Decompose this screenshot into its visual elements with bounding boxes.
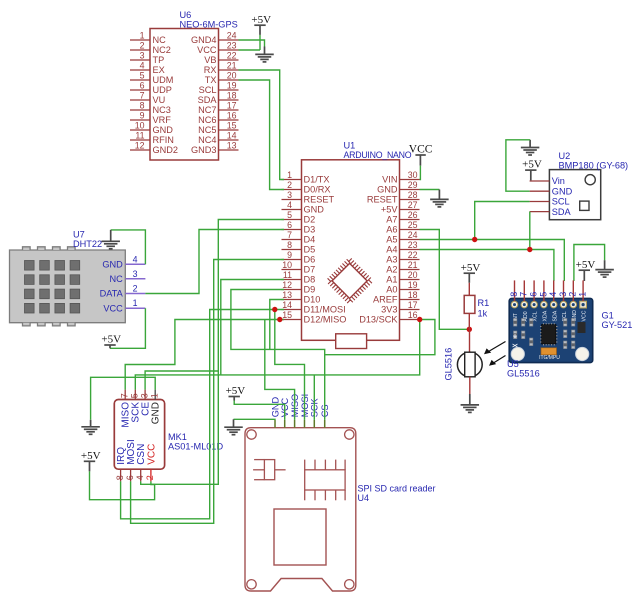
svg-text:GND: GND [102, 260, 123, 270]
svg-text:15: 15 [227, 121, 237, 131]
svg-text:SDA: SDA [552, 310, 558, 321]
U1 pin 27 +5V [400, 209, 420, 211]
U6 pin 15 NC5 [219, 129, 239, 131]
U1 pin 15 D12/MISO [282, 319, 302, 321]
ground U5 [469, 394, 471, 405]
MK1 pin 3 CE [144, 390, 146, 400]
svg-text:12: 12 [135, 141, 145, 151]
svg-text:RFIN: RFIN [153, 135, 174, 145]
svg-text:1: 1 [578, 292, 588, 297]
svg-text:1: 1 [287, 170, 292, 180]
svg-text:NC: NC [153, 35, 167, 45]
svg-text:VB: VB [204, 55, 216, 65]
G1 corner holes [511, 347, 524, 360]
svg-text:A3: A3 [386, 255, 397, 265]
junction D12 [277, 317, 282, 322]
ground symbol U6 [255, 54, 274, 62]
svg-text:RX: RX [204, 65, 217, 75]
U1 pin 11 D8 [282, 279, 302, 281]
svg-text:D9: D9 [304, 285, 316, 295]
svg-text:3: 3 [139, 393, 149, 398]
svg-text:14: 14 [282, 300, 292, 310]
svg-text:DHT22: DHT22 [73, 239, 102, 249]
svg-text:7: 7 [140, 91, 145, 101]
svg-text:DATA: DATA [100, 289, 124, 299]
svg-text:SCL: SCL [199, 85, 217, 95]
wire D11 branch to U4 MOSI [275, 310, 305, 420]
photoresistor U5 GL5516 [469, 329, 471, 352]
U6 pin 18 SDA [219, 99, 239, 101]
svg-text:1: 1 [149, 393, 159, 398]
svg-text:6: 6 [125, 475, 135, 480]
U1 pin 19 A0 [400, 289, 420, 291]
svg-text:VIN: VIN [382, 175, 397, 185]
svg-text:12: 12 [282, 280, 292, 290]
wire U1 D9 to U4 CS [231, 290, 325, 420]
svg-text:21: 21 [408, 260, 418, 270]
U6 pin 7 VU [130, 99, 150, 101]
wire MK1 CE riser [145, 371, 218, 390]
svg-text:A4: A4 [386, 245, 397, 255]
svg-text:+5V: +5V [226, 385, 246, 397]
svg-text:9: 9 [287, 250, 292, 260]
U1 pin 4 GND [282, 209, 302, 211]
svg-text:NC3: NC3 [153, 105, 171, 115]
svg-text:+5V: +5V [381, 205, 398, 215]
ground symbol U2 [521, 148, 540, 156]
BMP180 U2 body [549, 170, 600, 220]
svg-text:9: 9 [140, 111, 145, 121]
wire U1 D12/MISO to MK1 MISO [125, 320, 284, 390]
svg-text:GND2: GND2 [153, 145, 179, 155]
U7 vent grid [25, 261, 80, 314]
svg-text:17: 17 [408, 300, 418, 310]
wire G1 GND to ground [574, 245, 605, 282]
svg-text:11: 11 [135, 131, 144, 141]
svg-text:20: 20 [227, 71, 237, 81]
svg-text:GL5516: GL5516 [507, 369, 540, 379]
wire U1 A6 to R1/U5 junction [420, 230, 470, 330]
U6 pin 24 GND4 [219, 39, 239, 41]
wire U2 SCL to A5 net [475, 202, 530, 240]
svg-text:XCL: XCL [533, 311, 539, 321]
svg-text:14: 14 [227, 131, 237, 141]
U4 SD slot [274, 509, 326, 565]
G1 capacitor [541, 348, 557, 355]
svg-text:+5V: +5V [81, 450, 101, 462]
U1 pin 5 D2 [282, 219, 302, 221]
U6 pin 2 NC2 [130, 49, 150, 51]
U6 pin 20 TX [219, 79, 239, 81]
U1 pin 17 3V3 [400, 309, 420, 311]
svg-text:GND: GND [270, 397, 280, 418]
SD card reader U4 outline [245, 428, 356, 591]
U1 pin 1 D1/TX [282, 179, 302, 181]
DHT22 U7 body [10, 250, 126, 323]
svg-text:NC: NC [110, 274, 124, 284]
svg-text:16: 16 [408, 310, 418, 320]
wire U7 DATA to U1 D3 [145, 230, 284, 294]
svg-text:20: 20 [408, 270, 418, 280]
light arrows [484, 342, 506, 366]
svg-text:SCL: SCL [552, 197, 570, 207]
svg-text:GND: GND [377, 185, 398, 195]
U1 pin 16 D13/SCK [400, 319, 420, 321]
svg-text:TP: TP [153, 55, 165, 65]
wire U1 D2 to MK1 CE net [141, 220, 284, 485]
svg-text:NC5: NC5 [198, 125, 216, 135]
svg-text:RESET: RESET [304, 195, 335, 205]
svg-text:5: 5 [538, 292, 548, 297]
svg-text:3: 3 [287, 190, 292, 200]
svg-text:16: 16 [227, 111, 237, 121]
U4 pin MISO [294, 420, 296, 428]
U1 pin 21 A2 [400, 269, 420, 271]
wire U6 RX to U1 D1/TX [239, 70, 285, 180]
U4 pin MOSI [304, 420, 306, 428]
svg-text:2: 2 [568, 292, 578, 297]
svg-text:R1: R1 [478, 298, 490, 308]
Arduino U1 body [302, 160, 400, 340]
U4 IC symbol [305, 460, 345, 501]
svg-text:6: 6 [140, 81, 145, 91]
svg-text:1k: 1k [478, 309, 488, 319]
svg-text:22: 22 [227, 51, 237, 61]
svg-text:4: 4 [140, 61, 145, 71]
svg-text:AS01-ML01D: AS01-ML01D [168, 442, 224, 452]
U2 pin Vin [530, 180, 550, 182]
ground symbol G1 [595, 270, 614, 278]
svg-text:5: 5 [287, 210, 292, 220]
U6 pin 22 VB [219, 59, 239, 61]
svg-text:D4: D4 [304, 235, 316, 245]
G1 MPU chip [542, 325, 557, 345]
svg-text:D13/SCK: D13/SCK [359, 315, 398, 325]
U6 pin 10 GND [130, 129, 150, 131]
svg-text:4: 4 [287, 200, 292, 210]
svg-text:7: 7 [119, 393, 129, 398]
U1 pin 24 A5 [400, 239, 420, 241]
junction D13 [417, 317, 422, 322]
wire MK1 VCC to +5V [90, 471, 155, 499]
svg-text:UDM: UDM [153, 75, 174, 85]
svg-text:11: 11 [283, 270, 292, 280]
svg-text:BMP180 (GY-68): BMP180 (GY-68) [559, 160, 629, 170]
U6 pin 12 GND2 [130, 149, 150, 151]
wire U7 VCC to +5V [110, 308, 145, 348]
U6 pin 16 NC6 [219, 119, 239, 121]
svg-text:VCC: VCC [146, 444, 157, 465]
U6 pin 23 VCC [219, 49, 239, 51]
svg-text:24: 24 [408, 230, 418, 240]
U1 pin 10 D7 [282, 269, 302, 271]
GPS module U6 NEO-6M-GPS body [150, 29, 219, 161]
wire D13 branch right [325, 320, 435, 355]
ground symbol U7 [101, 241, 120, 249]
wire U6 VCC to +5V [259, 35, 261, 50]
U2 sensor circle [585, 175, 595, 185]
svg-text:SDA: SDA [198, 95, 218, 105]
U7 pin 1 VCC [125, 307, 145, 309]
U6 pin 11 RFIN [130, 139, 150, 141]
U6 pin 13 GND3 [219, 149, 239, 151]
svg-text:13: 13 [282, 290, 292, 300]
svg-text:GND3: GND3 [191, 145, 217, 155]
svg-text:+5V: +5V [101, 334, 121, 346]
svg-text:4: 4 [133, 254, 138, 264]
U1 MCU chip icon [329, 260, 371, 302]
wire U1 A5 to G1 SCL [420, 240, 565, 282]
svg-text:GND: GND [304, 205, 325, 215]
svg-text:+5V: +5V [251, 14, 271, 26]
U1 pin 13 D10 [282, 299, 302, 301]
wire U7 GND to ground [111, 230, 146, 264]
svg-text:3: 3 [133, 269, 138, 279]
svg-text:NC4: NC4 [198, 135, 216, 145]
U1 pin 20 A1 [400, 279, 420, 281]
svg-text:D11/MOSI: D11/MOSI [304, 305, 346, 315]
svg-text:VRF: VRF [153, 115, 172, 125]
U7 pin 3 NC [125, 278, 145, 280]
U6 pin 3 TP [130, 59, 150, 61]
svg-text:6: 6 [529, 292, 539, 297]
svg-text:U7: U7 [73, 230, 85, 240]
wire U1 D13/SCK to MK1 SCK [135, 320, 419, 390]
U6 pin 8 NC3 [130, 109, 150, 111]
gyro module G1 GY-521 PCB [509, 298, 593, 362]
svg-text:D6: D6 [304, 255, 316, 265]
svg-text:A6: A6 [386, 225, 397, 235]
U1 pin 29 GND [400, 189, 420, 191]
svg-text:D2: D2 [304, 215, 316, 225]
U1 pin 26 A7 [400, 219, 420, 221]
wire U4 VCC to +5V [234, 401, 285, 420]
svg-text:17: 17 [227, 101, 237, 111]
svg-text:D1/TX: D1/TX [304, 175, 330, 185]
wire U1 D6 to MK1 MOSI [131, 260, 284, 524]
svg-text:U1: U1 [344, 141, 356, 151]
U2 pin GND [530, 190, 550, 192]
G1 silk marks [513, 334, 518, 347]
U1 pin 2 D0/RX [282, 189, 302, 191]
U1 pin 8 D5 [282, 249, 302, 251]
U7 pin 2 DATA [125, 293, 145, 295]
svg-text:24: 24 [227, 31, 237, 41]
svg-text:U5: U5 [507, 359, 519, 369]
MK1 pin 6 MOSI [130, 469, 132, 481]
U6 pin 4 EX [130, 69, 150, 71]
svg-text:RESET: RESET [367, 195, 398, 205]
svg-text:A1: A1 [386, 275, 397, 285]
U4 capacitor symbol [253, 460, 286, 480]
svg-text:1: 1 [133, 298, 138, 308]
wire U6 TX to U1 D0/RX [239, 80, 285, 190]
U6 pin 19 SCL [219, 89, 239, 91]
wire D13 branch to U4 SCK [313, 375, 315, 420]
svg-text:7: 7 [287, 230, 292, 240]
wire U2 SDA to A4 net [529, 212, 531, 250]
svg-text:8: 8 [140, 101, 145, 111]
svg-text:SDA: SDA [552, 207, 572, 217]
U1 USB connector [336, 334, 367, 349]
junction A4/SDA [527, 247, 532, 252]
junction A5/SCL [472, 237, 477, 242]
MK1 pin 1 GND [154, 390, 156, 400]
svg-text:D10: D10 [304, 295, 321, 305]
U6 pin 17 NC7 [219, 109, 239, 111]
U4 pin VCC [284, 420, 286, 428]
MK1 pin 4 CSN [140, 469, 142, 481]
svg-text:GND4: GND4 [191, 35, 217, 45]
svg-text:D3: D3 [304, 225, 316, 235]
svg-text:SPI SD card reader: SPI SD card reader [358, 484, 436, 494]
svg-text:AREF: AREF [373, 295, 398, 305]
U1 pin 9 D6 [282, 259, 302, 261]
svg-text:GND: GND [153, 125, 174, 135]
svg-text:7: 7 [519, 292, 529, 297]
svg-text:+5V: +5V [461, 262, 481, 274]
svg-text:2: 2 [287, 180, 292, 190]
U6 pin 5 UDM [130, 79, 150, 81]
svg-text:13: 13 [227, 141, 237, 151]
MK1 pin 2 VCC [150, 469, 152, 481]
wire U2 GND to ground [529, 140, 531, 148]
wire MK1 GND to ground [91, 377, 156, 420]
svg-text:ITG/MPU: ITG/MPU [539, 355, 560, 361]
wire U1 A4 to G1 SDA [420, 250, 554, 282]
svg-text:VCC: VCC [197, 45, 217, 55]
G1 pin stubs [514, 280, 516, 301]
U1 pin 14 D11/MOSI [282, 309, 302, 311]
svg-text:UDP: UDP [153, 85, 172, 95]
U6 pin 21 RX [219, 69, 239, 71]
svg-text:26: 26 [408, 210, 418, 220]
U1 pin 3 RESET [282, 199, 302, 201]
svg-text:23: 23 [408, 240, 418, 250]
U1 pin 30 VIN [400, 179, 420, 181]
svg-text:10: 10 [135, 121, 145, 131]
svg-text:18: 18 [408, 290, 418, 300]
svg-text:NC7: NC7 [198, 105, 216, 115]
U4 mounting holes [247, 430, 256, 439]
U1 pin 6 D3 [282, 229, 302, 231]
U4 pin SCK [313, 420, 315, 428]
svg-text:D0/RX: D0/RX [304, 185, 331, 195]
wire U4 GND to ground [234, 418, 276, 421]
svg-text:D12/MISO: D12/MISO [304, 315, 347, 325]
U2 pin SCL [530, 201, 550, 203]
svg-text:2: 2 [140, 41, 145, 51]
svg-text:XDA: XDA [543, 310, 549, 321]
svg-text:25: 25 [408, 220, 418, 230]
svg-text:27: 27 [408, 200, 418, 210]
svg-text:EX: EX [153, 65, 165, 75]
U7 pin 4 GND [125, 263, 145, 265]
junction D11 [272, 307, 277, 312]
wire U6 GND4 to ground [239, 40, 265, 47]
svg-text:6: 6 [287, 220, 292, 230]
svg-text:5: 5 [140, 71, 145, 81]
MK1 pin 5 SCK [134, 390, 136, 400]
svg-text:NEO-6M-GPS: NEO-6M-GPS [180, 20, 238, 30]
svg-text:30: 30 [408, 170, 418, 180]
svg-text:10: 10 [282, 260, 292, 270]
wire U1 D11/MOSI to MK1 IRQ [121, 310, 284, 519]
resistor R1 [468, 283, 470, 296]
svg-text:4: 4 [135, 475, 145, 480]
svg-text:22: 22 [408, 250, 418, 260]
svg-text:VCC: VCC [409, 144, 433, 156]
svg-text:U6: U6 [180, 10, 192, 20]
U6 pin 14 NC4 [219, 139, 239, 141]
svg-text:1: 1 [140, 31, 145, 41]
svg-text:3: 3 [558, 292, 568, 297]
ground symbol MK1 [81, 427, 100, 435]
svg-text:3V3: 3V3 [381, 305, 397, 315]
svg-text:15: 15 [282, 310, 292, 320]
wire U1 VIN to VCC [419, 166, 422, 180]
svg-text:21: 21 [227, 61, 237, 71]
svg-text:D8: D8 [304, 275, 316, 285]
svg-text:5: 5 [130, 393, 140, 398]
G1 passives [514, 319, 517, 327]
G1 pin holes [511, 301, 518, 308]
wire U1 D10 down [270, 300, 284, 350]
wire U1 GND to ground [420, 189, 440, 191]
svg-text:D7: D7 [304, 265, 316, 275]
U1 pin 12 D9 [282, 289, 302, 291]
ground symbol U4 [224, 427, 243, 435]
U2 pin SDA [530, 211, 550, 213]
svg-text:NC2: NC2 [153, 45, 171, 55]
junction R1/U5 [467, 327, 472, 332]
U6 pin 9 VRF [130, 119, 150, 121]
svg-text:GL5516: GL5516 [444, 348, 454, 381]
svg-text:GND: GND [552, 186, 573, 196]
svg-text:Vin: Vin [552, 176, 565, 186]
svg-text:ARDUINO_NANO: ARDUINO_NANO [344, 150, 412, 160]
svg-text:19: 19 [227, 81, 237, 91]
svg-text:+5V: +5V [576, 259, 596, 271]
svg-text:+5V: +5V [522, 159, 542, 171]
wire U1 D8 down [221, 280, 284, 375]
U4 pin GND [274, 420, 276, 428]
U6 pin 6 UDP [130, 89, 150, 91]
svg-text:A0: A0 [386, 285, 397, 295]
svg-text:NC6: NC6 [198, 115, 216, 125]
U1 pin 25 A6 [400, 229, 420, 231]
svg-text:4: 4 [548, 292, 558, 297]
radio module MK1 AS01-ML01D body [114, 400, 164, 470]
svg-text:VCC: VCC [103, 303, 123, 313]
svg-text:VU: VU [153, 95, 166, 105]
svg-text:23: 23 [227, 41, 237, 51]
U1 pin 18 AREF [400, 299, 420, 301]
svg-text:GY-521: GY-521 [602, 320, 633, 330]
MK1 pin 8 IRQ [120, 469, 122, 481]
svg-text:D5: D5 [304, 245, 316, 255]
svg-text:18: 18 [227, 91, 237, 101]
svg-text:8: 8 [287, 240, 292, 250]
svg-text:3: 3 [140, 51, 145, 61]
wire D12 branch to U4 MISO [265, 320, 295, 420]
svg-text:GND: GND [151, 402, 162, 424]
ground symbol U1 [430, 199, 449, 207]
svg-text:U4: U4 [358, 493, 370, 503]
svg-text:8: 8 [115, 475, 125, 480]
svg-text:TX: TX [205, 75, 217, 85]
U1 pin 23 A4 [400, 249, 420, 251]
